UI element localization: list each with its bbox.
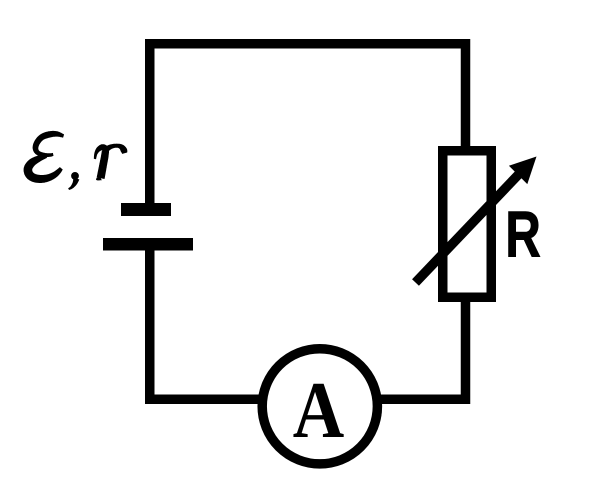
ammeter A1 (circle) — [262, 349, 377, 464]
wire: lower loop (left wire bottom, bottom wire, right wire from resistor) — [150, 245, 466, 399]
variable-resistor arrowhead — [509, 157, 537, 185]
battery cell: bottom plate (long) — [103, 238, 193, 251]
svg-text:R: R — [505, 199, 541, 271]
label comma — [68, 178, 79, 191]
label EMF script-epsilon — [24, 131, 65, 183]
wire: upper loop (left wire top, top wire, right wire to resistor) — [150, 44, 466, 210]
variable-resistor arrow shaft — [416, 174, 520, 283]
svg-text:A: A — [293, 365, 344, 455]
label r (internal resistance) — [94, 144, 128, 181]
resistor R body (rectangle) — [443, 151, 492, 298]
battery cell: top plate (short) — [121, 203, 171, 216]
